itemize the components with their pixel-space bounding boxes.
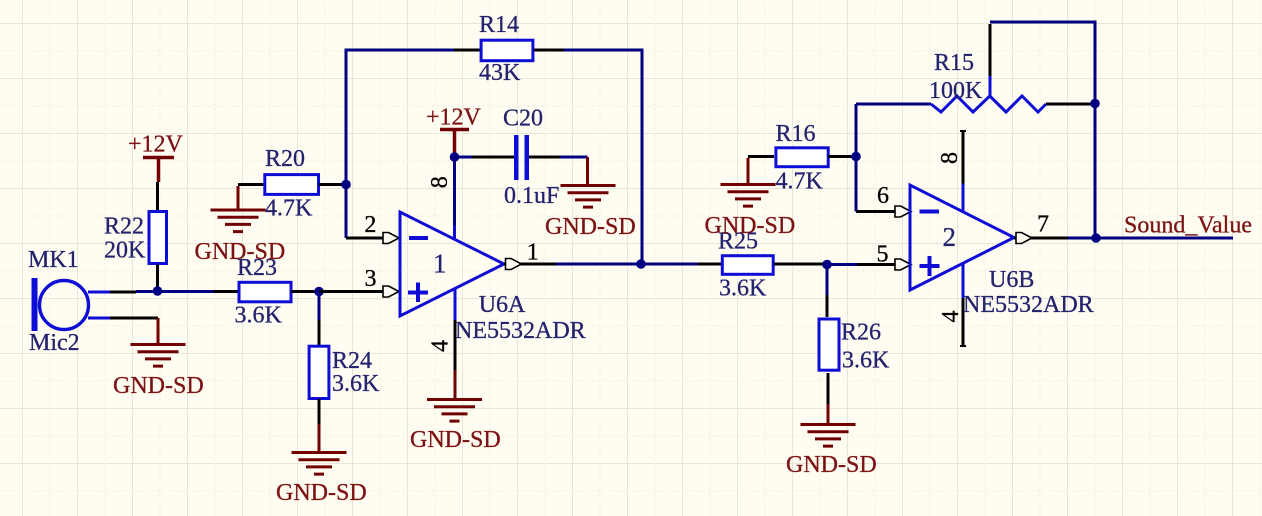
wire to R25 [641, 263, 698, 266]
svg-text:GND-SD: GND-SD [276, 480, 367, 506]
svg-text:+12V: +12V [426, 105, 482, 131]
svg-text:NE5532ADR: NE5532ADR [963, 292, 1094, 318]
svg-text:U6B: U6B [989, 267, 1034, 293]
pin R25 left [698, 263, 721, 266]
op-amp U6B [910, 185, 1014, 290]
ground GND-SD (R24) [318, 424, 321, 451]
ground GND-SD (R16) [747, 158, 750, 183]
pin 4 U6B [962, 264, 965, 298]
wire C20 left [455, 156, 473, 159]
svg-text:GND-SD: GND-SD [410, 427, 501, 453]
pin R26 bottom [827, 373, 830, 404]
svg-text:3.6K: 3.6K [719, 275, 767, 301]
svg-text:+12V: +12V [128, 132, 184, 158]
resistor R25 [722, 256, 773, 275]
potentiometer R15 [931, 96, 1046, 112]
svg-text:R26: R26 [841, 319, 881, 345]
pin arrow 5 [895, 259, 911, 270]
pin R14 right [534, 49, 564, 52]
svg-text:1: 1 [527, 239, 539, 265]
resistor R16 [776, 148, 828, 167]
pin R25 right [774, 263, 827, 266]
capacitor C20 [514, 135, 529, 180]
wire mic to junction [136, 290, 157, 293]
junction node R20/R14 loop [341, 180, 351, 190]
svg-text:GND-SD: GND-SD [545, 214, 636, 240]
pin R14 left [454, 49, 480, 52]
svg-text:100K: 100K [929, 78, 983, 104]
pin R23 left [213, 290, 238, 293]
wire pin 6 [856, 210, 895, 213]
svg-text:8: 8 [427, 176, 453, 188]
pin arrow 6 [895, 206, 911, 217]
junction node R16/R15/pin6 [851, 152, 861, 162]
svg-text:8: 8 [937, 152, 963, 164]
svg-text:GND-SD: GND-SD [113, 373, 204, 399]
svg-text:GND-SD: GND-SD [786, 452, 877, 478]
resistor R22 [149, 212, 167, 264]
wire output U6A [556, 263, 641, 266]
svg-text:GND-SD: GND-SD [195, 239, 286, 265]
junction node R15 right [1090, 99, 1100, 109]
wire junction to R23 [158, 290, 214, 293]
svg-text:3: 3 [365, 266, 377, 292]
power +12V (pin 8) [440, 130, 469, 156]
svg-text:4: 4 [428, 340, 454, 352]
ground GND-SD (U6A pin4) [454, 370, 457, 398]
pin R15 wiper [989, 76, 992, 96]
svg-text:GND-SD: GND-SD [705, 213, 796, 239]
svg-text:R15: R15 [934, 50, 974, 76]
junction node pin7/Sound_Value [1091, 233, 1101, 243]
svg-text:2: 2 [364, 212, 376, 238]
svg-text:R22: R22 [104, 213, 144, 239]
svg-text:R16: R16 [776, 121, 816, 147]
svg-text:MK1: MK1 [28, 247, 79, 273]
resistor R14 [481, 40, 533, 61]
svg-text:R20: R20 [265, 146, 305, 172]
wire Sound_Value [1096, 237, 1233, 240]
wire output U6B [1068, 237, 1096, 240]
svg-text:C20: C20 [503, 106, 543, 132]
pin 8 U6B [960, 130, 966, 132]
power +12V (R22) [143, 158, 174, 183]
svg-text:3.6K: 3.6K [235, 303, 283, 329]
resistor R23 [239, 282, 291, 302]
wire R14 feedback loop right [564, 50, 642, 262]
svg-text:43K: 43K [479, 60, 521, 86]
pin R24 bottom [318, 399, 321, 424]
resistor R24 [309, 346, 329, 398]
svg-text:U6A: U6A [479, 292, 526, 318]
svg-text:3.6K: 3.6K [842, 347, 890, 373]
wire pin 8 U6A [453, 157, 456, 225]
junction node out1/R14/R25 [636, 259, 646, 269]
wire R15 right to output [1094, 103, 1097, 238]
pin R20 right [319, 183, 346, 186]
wire junction to R26 [826, 265, 829, 296]
junction node mic/R22/R23 [153, 286, 163, 296]
wire R15 left vertical [855, 104, 858, 212]
svg-text:4.7K: 4.7K [265, 196, 313, 222]
wire junction to R24 [318, 292, 321, 321]
svg-text:3.6K: 3.6K [332, 371, 380, 397]
pin C20 right [529, 156, 560, 159]
ground GND-SD (mic) [157, 318, 160, 343]
pin R15 right [1046, 103, 1095, 106]
svg-text:NE5532ADR: NE5532ADR [455, 318, 586, 344]
wire C20 to ground [560, 156, 588, 159]
op-amp U6A [400, 212, 504, 316]
wire +12V to R22 [156, 182, 159, 211]
pin R22 bottom [156, 265, 159, 290]
pin 1 output U6A [504, 263, 556, 266]
junction node +12V/C20/pin8 [450, 152, 460, 162]
svg-text:2: 2 [943, 222, 957, 252]
microphone MK1 [32, 278, 159, 331]
ground GND-SD (C20) [561, 186, 616, 208]
resistor R26 [819, 319, 839, 370]
pin R23 right [291, 290, 319, 293]
pin arrow 2 [383, 233, 399, 244]
ground GND-SD (R20) [237, 186, 240, 209]
wire pin 5 [827, 263, 857, 266]
pin 7 output U6B [1014, 237, 1068, 240]
svg-text:1: 1 [433, 248, 447, 278]
svg-text:6: 6 [877, 183, 889, 209]
wire to R15 [856, 103, 931, 106]
pin 4 U6A [454, 289, 457, 320]
svg-text:0.1uF: 0.1uF [504, 183, 559, 209]
svg-text:7: 7 [1037, 212, 1049, 238]
svg-text:20K: 20K [104, 238, 146, 264]
wire to pin 2 [345, 185, 348, 239]
svg-text:4.7K: 4.7K [776, 169, 824, 195]
junction node R23/R24/pin3 [314, 287, 324, 297]
wire R14 feedback loop left [346, 50, 454, 185]
junction node R25/R26/pin5 [822, 260, 832, 270]
svg-text:R14: R14 [479, 12, 519, 38]
svg-text:4: 4 [938, 311, 964, 323]
svg-text:Sound_Value: Sound_Value [1124, 213, 1252, 239]
pin R16 right [828, 155, 856, 158]
pin R16 left [748, 155, 774, 158]
wire pin 3 [319, 290, 384, 293]
pin arrow 3 [383, 286, 399, 297]
wire R15 wiper loop [990, 22, 1095, 103]
ground GND-SD (R26) [827, 404, 830, 423]
resistor R20 [265, 175, 319, 195]
svg-text:Mic2: Mic2 [29, 330, 80, 356]
pin R20 left [238, 183, 265, 186]
svg-text:5: 5 [877, 242, 889, 268]
